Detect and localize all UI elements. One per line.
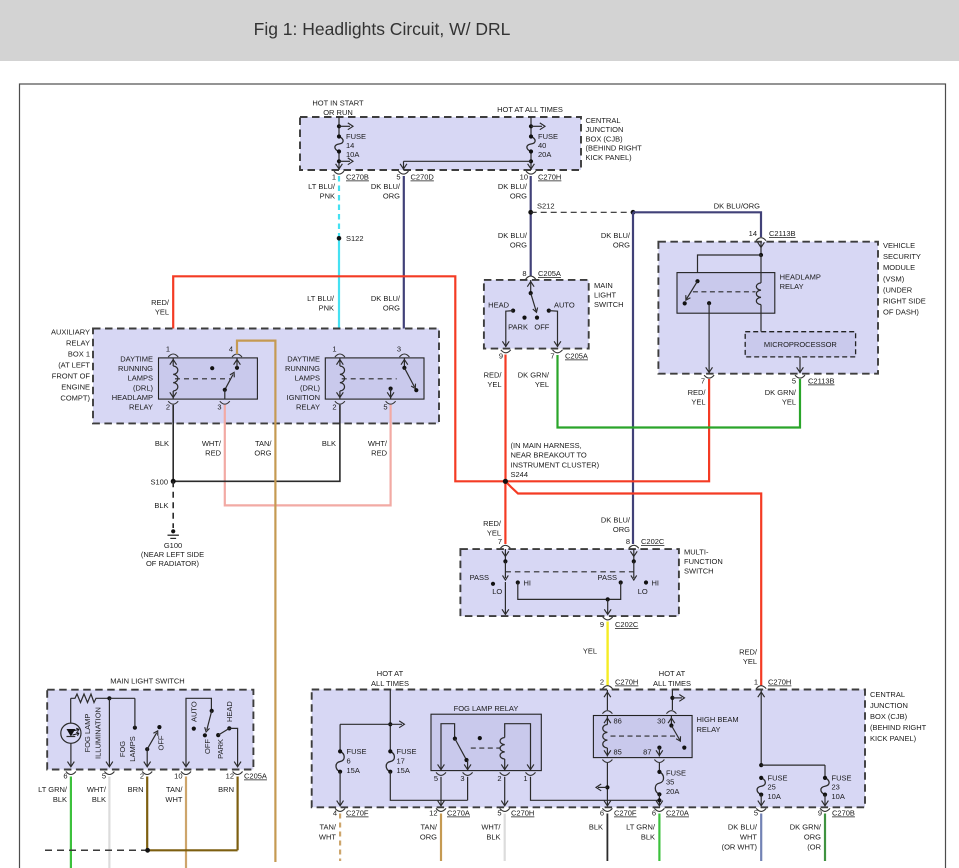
- DRL ignition relay pin3 and switch arm: [399, 354, 409, 357]
- svg-text:(OR WHT): (OR WHT): [722, 843, 758, 852]
- svg-text:DAYTIME: DAYTIME: [287, 354, 320, 363]
- svg-text:BLK: BLK: [155, 439, 169, 448]
- wire DK BLU/ORG junction down to multifunction switch pin8: [632, 212, 634, 544]
- DRL headlamp relay coil: [173, 366, 178, 391]
- svg-text:12: 12: [226, 772, 234, 781]
- svg-text:JUNCTION: JUNCTION: [586, 125, 624, 134]
- svg-text:KICK PANEL): KICK PANEL): [870, 734, 917, 743]
- svg-text:WHT: WHT: [165, 795, 182, 804]
- svg-text:LT BLU/: LT BLU/: [308, 182, 336, 191]
- svg-text:YEL: YEL: [155, 308, 169, 317]
- svg-text:AUTO: AUTO: [554, 301, 575, 310]
- svg-text:HEAD: HEAD: [488, 301, 509, 310]
- connector pin 5 C270H bottom: [500, 808, 510, 811]
- svg-text:MAIN LIGHT SWITCH: MAIN LIGHT SWITCH: [110, 677, 184, 686]
- fog lamp relay switch side: [441, 724, 455, 771]
- contact PARK: [522, 316, 526, 320]
- contact HI left: [516, 580, 520, 584]
- pin 85 ground branch: [606, 763, 608, 805]
- connector pin 7 multifunction: [500, 545, 510, 548]
- svg-text:IGNITION: IGNITION: [287, 393, 320, 402]
- svg-text:ILLUMINATION: ILLUMINATION: [94, 707, 103, 759]
- connector pin 14 C2113B: [756, 238, 766, 241]
- svg-text:2: 2: [332, 403, 336, 412]
- svg-text:FUSE: FUSE: [397, 747, 417, 756]
- svg-text:C270H: C270H: [615, 678, 638, 687]
- connector pin 1 C270H top: [756, 686, 766, 689]
- svg-text:OFF: OFF: [534, 323, 549, 332]
- svg-text:7: 7: [498, 537, 502, 546]
- svg-text:RIGHT SIDE: RIGHT SIDE: [883, 297, 926, 306]
- connector pin 5 C2113B: [795, 375, 805, 378]
- svg-text:LAMPS: LAMPS: [295, 374, 320, 383]
- DRL ignition relay pin2: [335, 401, 345, 404]
- svg-text:35: 35: [666, 778, 674, 787]
- svg-text:ORG: ORG: [613, 241, 630, 250]
- fog lamp relay box: [431, 714, 541, 770]
- svg-text:LT BLU/: LT BLU/: [307, 294, 335, 303]
- internal wire pin2 to relay 86: [606, 690, 608, 710]
- node BRN junction: [145, 848, 150, 853]
- svg-text:C270H: C270H: [768, 678, 791, 687]
- svg-text:ORG: ORG: [510, 192, 527, 201]
- contact PARK bottom: [216, 733, 220, 737]
- svg-text:HEADLAMP: HEADLAMP: [780, 273, 821, 282]
- svg-text:YEL: YEL: [535, 380, 549, 389]
- svg-text:10A: 10A: [832, 792, 845, 801]
- wire BRN below pin12: [237, 777, 239, 851]
- svg-text:(BEHIND RIGHT: (BEHIND RIGHT: [870, 723, 927, 732]
- headlamp relay contact to pin7: [707, 301, 711, 305]
- svg-text:12: 12: [429, 809, 437, 818]
- svg-text:C270F: C270F: [346, 809, 369, 818]
- svg-text:YEL: YEL: [487, 380, 501, 389]
- fuse F35 20A: [658, 763, 660, 772]
- svg-text:OFF: OFF: [203, 739, 212, 754]
- svg-text:HOT AT: HOT AT: [659, 669, 686, 678]
- fuse F40 20A: [530, 117, 532, 137]
- svg-text:TAN/: TAN/: [166, 785, 183, 794]
- svg-text:WHT/: WHT/: [87, 785, 107, 794]
- left LO exit line: [504, 582, 506, 614]
- svg-text:(VSM): (VSM): [883, 274, 905, 283]
- svg-text:C270B: C270B: [832, 809, 855, 818]
- svg-text:LIGHT: LIGHT: [594, 291, 617, 300]
- node junction DK BLU/ORG: [631, 210, 636, 215]
- svg-text:FUSE: FUSE: [666, 769, 686, 778]
- svg-text:RELAY: RELAY: [296, 403, 320, 412]
- svg-text:(DRL): (DRL): [300, 383, 321, 392]
- svg-text:4: 4: [333, 809, 337, 818]
- microprocessor output to pin5: [799, 357, 801, 373]
- contact AUTO bottom: [192, 727, 196, 731]
- svg-text:2: 2: [600, 678, 604, 687]
- contact AUTO: [547, 309, 551, 313]
- contact OFF bottom: [203, 733, 207, 737]
- wire LT GRN/BLK below pin6 MLS: [70, 777, 72, 868]
- svg-text:YEL: YEL: [691, 398, 705, 407]
- wire RED/YEL S244 down to multifunction switch pin7: [504, 481, 506, 544]
- svg-text:20A: 20A: [538, 150, 551, 159]
- headlamp relay switch: [695, 279, 699, 283]
- wire AUTO contact to pin7: [549, 311, 558, 347]
- svg-text:2: 2: [497, 774, 501, 783]
- svg-text:MICROPROCESSOR: MICROPROCESSOR: [764, 340, 838, 349]
- svg-text:HIGH BEAM: HIGH BEAM: [697, 715, 739, 724]
- svg-text:4: 4: [229, 345, 233, 354]
- connector pin 9: [501, 350, 511, 353]
- illumination feed to pin5: [108, 698, 110, 766]
- svg-text:FUSE: FUSE: [768, 774, 788, 783]
- svg-text:C270A: C270A: [447, 809, 470, 818]
- headlamp relay coil: [760, 255, 762, 283]
- high beam relay contact 87: [657, 746, 661, 750]
- svg-text:40: 40: [538, 141, 546, 150]
- wire RED/YEL S244 to CJB pin1 C270H: [505, 481, 761, 686]
- svg-text:5: 5: [396, 173, 400, 182]
- svg-text:ORG: ORG: [383, 304, 400, 313]
- svg-text:LO: LO: [492, 587, 502, 596]
- svg-text:6: 6: [347, 756, 351, 765]
- svg-text:1: 1: [332, 173, 336, 182]
- svg-text:COMPT): COMPT): [60, 394, 90, 403]
- svg-text:C2113B: C2113B: [769, 229, 796, 238]
- illumination resistor: [71, 694, 110, 703]
- svg-text:PARK: PARK: [508, 323, 528, 332]
- svg-text:1: 1: [754, 678, 758, 687]
- svg-text:HEADLAMP: HEADLAMP: [112, 393, 153, 402]
- svg-text:BRN: BRN: [128, 785, 144, 794]
- svg-text:BLK: BLK: [154, 501, 168, 510]
- connector pin 2 C270H top: [603, 686, 613, 689]
- svg-text:C2113B: C2113B: [808, 377, 835, 386]
- DRL ignition relay pin1: [335, 354, 345, 357]
- svg-text:1: 1: [332, 345, 336, 354]
- main light switch bottom box: [47, 690, 253, 770]
- DRL headlamp relay box: [159, 358, 258, 399]
- svg-text:AUXILIARY: AUXILIARY: [51, 328, 90, 337]
- svg-text:HOT AT: HOT AT: [377, 669, 404, 678]
- DRL ignition relay dashed link: [342, 378, 397, 380]
- svg-text:LAMPS: LAMPS: [128, 374, 153, 383]
- svg-text:BRN: BRN: [218, 785, 234, 794]
- svg-text:FOG LAMP RELAY: FOG LAMP RELAY: [454, 704, 519, 713]
- main light switch wiper: [530, 280, 532, 293]
- svg-text:FUSE: FUSE: [346, 132, 366, 141]
- fog lamp relay coil: [504, 759, 506, 771]
- wire BLK DRL ignition relay pin2 to S100: [173, 405, 340, 482]
- svg-text:SWITCH: SWITCH: [594, 300, 624, 309]
- svg-text:HOT AT ALL TIMES: HOT AT ALL TIMES: [497, 105, 563, 114]
- svg-text:RELAY: RELAY: [129, 403, 153, 412]
- splice S122: [337, 236, 342, 241]
- svg-text:ORG: ORG: [254, 449, 271, 458]
- svg-text:DK BLU/: DK BLU/: [601, 231, 631, 240]
- svg-text:TAN/: TAN/: [255, 439, 272, 448]
- svg-text:YEL: YEL: [583, 647, 597, 656]
- high beam relay box: [593, 716, 692, 758]
- svg-text:BOX (CJB): BOX (CJB): [870, 712, 908, 721]
- svg-text:PNK: PNK: [319, 304, 334, 313]
- svg-text:C270D: C270D: [411, 173, 435, 182]
- svg-text:LO: LO: [638, 587, 648, 596]
- wire YEL pin9 to CJB 2 C270H: [606, 622, 608, 687]
- svg-text:HI: HI: [652, 579, 660, 588]
- wire BRN below pin2: [146, 777, 148, 851]
- svg-text:OF RADIATOR): OF RADIATOR): [146, 559, 200, 568]
- svg-text:VEHICLE: VEHICLE: [883, 241, 915, 250]
- svg-text:20A: 20A: [666, 787, 679, 796]
- wire WHT/BLK below pin5: [504, 814, 506, 862]
- contact HEAD: [511, 309, 515, 313]
- headlamp relay box: [677, 273, 775, 314]
- svg-text:9: 9: [600, 620, 604, 629]
- fog lamps contact: [133, 726, 137, 730]
- wire fuse40 to pin5: [404, 160, 532, 162]
- fog relay pin3 down: [467, 777, 469, 801]
- svg-text:5: 5: [497, 809, 501, 818]
- svg-text:DK GRN/: DK GRN/: [518, 371, 550, 380]
- svg-text:MAIN: MAIN: [594, 281, 613, 290]
- svg-text:10: 10: [174, 772, 182, 781]
- svg-text:KICK PANEL): KICK PANEL): [586, 153, 633, 162]
- svg-text:8: 8: [626, 537, 630, 546]
- fuse F23 10A: [821, 778, 829, 795]
- svg-text:5: 5: [383, 403, 387, 412]
- svg-text:17: 17: [397, 756, 405, 765]
- svg-text:RELAY: RELAY: [697, 725, 721, 734]
- DRL headlamp relay switch arm: [235, 366, 239, 370]
- svg-text:3: 3: [397, 345, 401, 354]
- svg-text:NEAR BREAKOUT TO: NEAR BREAKOUT TO: [511, 451, 587, 460]
- connector pin 9 C270B: [820, 808, 830, 811]
- svg-text:15A: 15A: [347, 766, 360, 775]
- svg-text:BOX (CJB): BOX (CJB): [586, 134, 624, 143]
- svg-text:(NEAR LEFT SIDE: (NEAR LEFT SIDE: [141, 550, 204, 559]
- DRL ignition relay box: [325, 358, 424, 399]
- svg-text:3: 3: [217, 403, 221, 412]
- svg-text:SECURITY: SECURITY: [883, 252, 921, 261]
- contact HI right: [644, 580, 648, 584]
- connector pin 7 VSM: [706, 367, 713, 372]
- connector pin 5 right: [756, 808, 766, 811]
- svg-text:CENTRAL: CENTRAL: [586, 116, 621, 125]
- svg-text:85: 85: [614, 748, 622, 757]
- svg-text:HEAD: HEAD: [225, 701, 234, 722]
- wire WHT/RED relay pin3 to relay pin5: [225, 405, 391, 506]
- svg-text:FOG LAMP: FOG LAMP: [83, 714, 92, 753]
- fuse F14 10A: [338, 117, 340, 137]
- svg-text:DK GRN/: DK GRN/: [765, 388, 797, 397]
- svg-text:SWITCH: SWITCH: [684, 566, 714, 575]
- svg-text:RUNNING: RUNNING: [285, 364, 320, 373]
- svg-text:WHT: WHT: [740, 833, 757, 842]
- svg-text:DK BLU/: DK BLU/: [498, 182, 528, 191]
- DRL ignition relay coil: [340, 366, 345, 391]
- wire DK BLU/WHT below pin5 right: [760, 814, 762, 862]
- wire dashed S212 to junction: [531, 211, 633, 213]
- svg-text:5: 5: [434, 774, 438, 783]
- wire DK GRN/ORG below pin9: [824, 814, 826, 862]
- fog switch pivot to pin2: [146, 749, 148, 766]
- contact OFF: [535, 316, 539, 320]
- svg-text:C270B: C270B: [346, 173, 369, 182]
- svg-text:ALL TIMES: ALL TIMES: [653, 679, 691, 688]
- microprocessor box: [745, 332, 855, 357]
- connector pin 12 C270A: [436, 808, 446, 811]
- headlight switch feed: [186, 698, 211, 766]
- svg-text:DK BLU/: DK BLU/: [728, 823, 758, 832]
- svg-text:HI: HI: [524, 579, 532, 588]
- svg-text:RED/: RED/: [484, 371, 503, 380]
- svg-text:6: 6: [652, 809, 656, 818]
- VSM internal wiring to relay: [760, 242, 762, 255]
- svg-text:C202C: C202C: [615, 620, 639, 629]
- wire BLK below pin6 C270F: [606, 814, 608, 862]
- fog lamp relay pins: [438, 764, 445, 769]
- svg-text:ORG: ORG: [804, 833, 821, 842]
- contact PASS left: [491, 582, 495, 586]
- wire BLK DRL headlamp relay pin2 to S100: [172, 405, 174, 482]
- svg-text:9: 9: [818, 809, 822, 818]
- svg-text:LT GRN/: LT GRN/: [626, 823, 656, 832]
- svg-text:DK BLU/: DK BLU/: [371, 294, 401, 303]
- svg-text:TAN/: TAN/: [420, 823, 437, 832]
- svg-text:10A: 10A: [346, 150, 359, 159]
- connector pin 4 C270F: [335, 808, 345, 811]
- svg-text:RED: RED: [371, 449, 387, 458]
- svg-text:86: 86: [614, 717, 622, 726]
- svg-text:BLK: BLK: [641, 833, 655, 842]
- svg-text:OFF: OFF: [157, 735, 166, 750]
- fog relay pin5 to 12 C270A: [440, 777, 442, 805]
- svg-text:9: 9: [499, 352, 503, 361]
- svg-text:WHT/: WHT/: [481, 823, 501, 832]
- wire TAN/WHT below pin10: [185, 777, 187, 868]
- svg-text:(IN MAIN HARNESS,: (IN MAIN HARNESS,: [511, 441, 582, 450]
- multifunction right wiper: [633, 549, 635, 561]
- svg-text:FRONT OF: FRONT OF: [52, 372, 91, 381]
- wire RED/YEL feed rectangle to DRL headlamp relay pin1: [173, 276, 505, 481]
- svg-text:30: 30: [657, 717, 665, 726]
- svg-text:MULTI-: MULTI-: [684, 548, 709, 557]
- DRL ignition relay contact to pin5: [389, 387, 393, 391]
- svg-text:FUSE: FUSE: [832, 774, 852, 783]
- svg-text:DK BLU/: DK BLU/: [601, 516, 631, 525]
- svg-text:14: 14: [346, 141, 354, 150]
- svg-text:DAYTIME: DAYTIME: [120, 354, 153, 363]
- svg-text:C205A: C205A: [538, 269, 561, 278]
- fog lamp relay dashed link: [471, 747, 501, 749]
- svg-text:OR RUN: OR RUN: [323, 108, 353, 117]
- wire TAN/ORG below pin12: [440, 814, 442, 862]
- fog relay pin1 to fuse35 node: [531, 777, 660, 801]
- main light switch box: [484, 280, 589, 349]
- multifunction left wiper: [504, 549, 506, 561]
- high beam relay coil: [603, 725, 608, 749]
- internal wire pin1 to fuses: [760, 690, 762, 765]
- svg-text:PASS: PASS: [470, 573, 489, 582]
- svg-text:5: 5: [754, 809, 758, 818]
- svg-text:FUSE: FUSE: [538, 132, 558, 141]
- connector pin 7 C205A: [553, 350, 563, 353]
- svg-text:7: 7: [701, 377, 705, 386]
- svg-text:6: 6: [63, 772, 67, 781]
- svg-text:ORG: ORG: [613, 525, 630, 534]
- svg-text:15A: 15A: [397, 766, 410, 775]
- wire BRN horizontal join: [147, 849, 237, 851]
- svg-text:1: 1: [523, 774, 527, 783]
- svg-text:LAMPS: LAMPS: [128, 736, 137, 761]
- svg-text:LT GRN/: LT GRN/: [38, 785, 68, 794]
- DRL headlamp relay dashed link: [175, 378, 230, 380]
- svg-text:RED/: RED/: [739, 648, 758, 657]
- svg-text:PNK: PNK: [320, 192, 335, 201]
- high beam bus wiring: [518, 583, 621, 600]
- svg-text:DK BLU/ORG: DK BLU/ORG: [714, 202, 760, 211]
- svg-text:YEL: YEL: [782, 398, 796, 407]
- svg-text:S100: S100: [150, 478, 168, 487]
- left wiper arm to LO: [504, 561, 506, 578]
- svg-text:JUNCTION: JUNCTION: [870, 701, 908, 710]
- high beam relay dashed link: [611, 735, 677, 737]
- connector pin 9 C202C: [603, 617, 613, 620]
- fog lamp illumination LED: [61, 723, 81, 743]
- gang dashed link: [505, 571, 633, 573]
- svg-text:PASS: PASS: [598, 573, 617, 582]
- high beam relay pin 86: [602, 711, 612, 714]
- fog lamp relay contact NO: [478, 736, 482, 740]
- svg-text:WHT/: WHT/: [368, 439, 388, 448]
- svg-text:14: 14: [749, 229, 757, 238]
- contact PASS right: [619, 580, 623, 584]
- svg-text:BLK: BLK: [589, 823, 603, 832]
- svg-text:WHT: WHT: [319, 833, 336, 842]
- connector pin 5 C270D: [399, 171, 409, 174]
- svg-text:RED: RED: [205, 449, 221, 458]
- central junction box CJB top: [300, 117, 581, 170]
- svg-text:87: 87: [643, 748, 651, 757]
- svg-text:7: 7: [550, 352, 554, 361]
- high beam relay pin 30: [666, 711, 676, 714]
- svg-text:2: 2: [166, 403, 170, 412]
- pin 9 exit: [607, 599, 609, 613]
- svg-text:C202C: C202C: [641, 537, 665, 546]
- contact HEAD bottom: [227, 726, 231, 730]
- wire WHT/BLK below pin5 MLS: [108, 777, 110, 868]
- vehicle security module VSM box: [658, 242, 878, 374]
- auxiliary relay box 1: [93, 329, 439, 424]
- bottom MLS connector pins: [66, 772, 76, 775]
- wire TAN/ORG from relay pin4 down page: [237, 341, 275, 862]
- fuse F6 15A: [336, 751, 344, 771]
- svg-text:6: 6: [600, 809, 604, 818]
- high beam relay switch arm: [669, 723, 673, 727]
- svg-text:MODULE: MODULE: [883, 263, 915, 272]
- wire TAN/WHT below pin4: [339, 814, 341, 862]
- svg-text:3: 3: [460, 774, 464, 783]
- svg-text:C205A: C205A: [565, 352, 588, 361]
- svg-text:(AT LEFT: (AT LEFT: [58, 361, 90, 370]
- svg-text:G100: G100: [164, 541, 182, 550]
- svg-text:OF DASH): OF DASH): [883, 308, 919, 317]
- svg-text:WHT/: WHT/: [202, 439, 222, 448]
- svg-text:5: 5: [102, 772, 106, 781]
- svg-text:S122: S122: [346, 234, 364, 243]
- svg-text:C270H: C270H: [511, 809, 534, 818]
- DRL headlamp relay pin2: [168, 401, 178, 404]
- svg-text:RED/: RED/: [688, 388, 707, 397]
